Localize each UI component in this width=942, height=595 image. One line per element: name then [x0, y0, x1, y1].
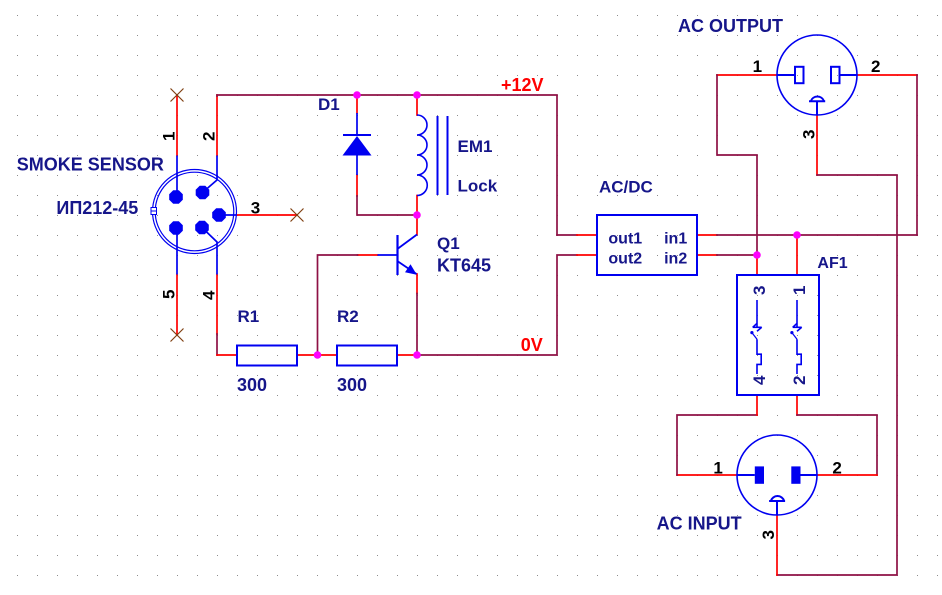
- wire R1 left red: [217, 354, 237, 356]
- wire AC OUTPUT pin1 maroon path: [717, 75, 757, 255]
- AF1 pole A: [750, 300, 761, 374]
- EM1 core line 1: [437, 116, 439, 195]
- wire base red stub: [358, 254, 378, 256]
- AC INPUT ground dome pin 3: [769, 496, 785, 501]
- svg-text:2: 2: [832, 458, 841, 477]
- wire D1 bottom red: [356, 175, 358, 196]
- sensor pad 1: [169, 190, 183, 204]
- wire AC INPUT pin3 red: [776, 515, 778, 576]
- AC OUTPUT pin 3 lead: [816, 101, 818, 115]
- AC OUTPUT connector body circle: [777, 35, 857, 115]
- sensor pin1 lead: [176, 156, 178, 198]
- wire pin4 maroon corner: [216, 334, 218, 355]
- svg-text:in2: in2: [664, 251, 687, 268]
- wire in1 maroon to right: [717, 234, 917, 236]
- AC/DC converter box: [597, 215, 697, 275]
- svg-text:1: 1: [160, 132, 179, 141]
- wire EM1 top red: [416, 95, 418, 115]
- svg-text:R2: R2: [337, 307, 359, 326]
- AC INPUT connector body circle: [737, 435, 817, 515]
- sensor pad 5: [169, 221, 183, 235]
- svg-text:4: 4: [750, 375, 769, 385]
- wire base maroon to R node: [318, 255, 358, 355]
- sensor pin5 lead: [176, 228, 178, 275]
- node EM1 +12V junction: [413, 91, 421, 99]
- resistor R1: [237, 346, 297, 366]
- wire AF1 pin2 red drop: [796, 395, 798, 415]
- wire out2 maroon down to 0V: [417, 255, 577, 355]
- wire R2 right red: [397, 354, 417, 356]
- inductor EM1 coil: [417, 115, 427, 196]
- svg-text:2: 2: [871, 57, 880, 76]
- node in1-AF1 junction: [793, 231, 801, 239]
- EM1 core line 2: [447, 116, 449, 195]
- wire AC OUTPUT pin3 red: [816, 115, 818, 175]
- sensor pin3 lead: [219, 214, 237, 216]
- wire collector red: [416, 215, 418, 235]
- wire AC OUTPUT pin1 red: [717, 74, 777, 76]
- node D1-EM1-collector junction: [413, 211, 421, 219]
- AC OUTPUT slot pin 1: [795, 67, 804, 83]
- wire out2 stub red: [577, 254, 597, 256]
- AC OUTPUT ground dome pin 3: [809, 97, 825, 102]
- wire emitter maroon to 0V node: [416, 294, 418, 356]
- svg-text:Lock: Lock: [458, 177, 498, 196]
- svg-text:AF1: AF1: [817, 255, 847, 272]
- AF1 breaker box: [737, 275, 819, 395]
- smoke sensor inner circle: [155, 172, 234, 251]
- wire AF1 pin3 red drop: [756, 255, 758, 275]
- wire AC INPUT pin2 red: [817, 474, 877, 476]
- svg-text:R1: R1: [238, 307, 260, 326]
- terminal X pin1: [171, 89, 184, 102]
- wire emitter red: [416, 274, 418, 294]
- svg-text:5: 5: [160, 290, 179, 299]
- svg-text:out1: out1: [608, 230, 642, 247]
- svg-text:300: 300: [337, 375, 367, 395]
- svg-text:3: 3: [251, 199, 260, 218]
- svg-text:0V: 0V: [521, 335, 543, 355]
- wire AF1 pin2 maroon path: [797, 415, 877, 475]
- svg-text:AC INPUT: AC INPUT: [657, 514, 742, 534]
- smoke sensor outer circle: [153, 170, 237, 254]
- node R1-R2-base junction: [314, 351, 322, 359]
- wire AC OUTPUT pin2 maroon down: [916, 75, 918, 235]
- svg-text:Q1: Q1: [437, 234, 460, 253]
- wire out1 stub maroon: [557, 234, 577, 236]
- svg-text:2: 2: [200, 132, 219, 141]
- wire AC OUTPUT pin2 red: [857, 74, 917, 76]
- wire EM1 bottom red: [416, 196, 418, 216]
- AC OUTPUT slot pin 2: [831, 67, 840, 83]
- resistor R2: [337, 346, 397, 366]
- wire in2 maroon to node: [717, 254, 757, 256]
- wire in2 red stub: [697, 254, 717, 256]
- svg-text:in1: in1: [664, 230, 687, 247]
- sensor pin2 lead: [203, 156, 218, 193]
- wire in1 red stub: [697, 234, 717, 236]
- svg-text:4: 4: [200, 290, 219, 300]
- svg-text:2: 2: [790, 376, 809, 385]
- wire AF1 pin1 red drop: [796, 235, 798, 275]
- sensor pad 4: [195, 221, 209, 235]
- svg-text:AC OUTPUT: AC OUTPUT: [678, 16, 783, 36]
- wire pin3 red horizontal: [237, 214, 298, 216]
- svg-text:SMOKE SENSOR: SMOKE SENSOR: [17, 155, 164, 175]
- svg-text:ИП212-45: ИП212-45: [56, 198, 138, 218]
- svg-text:1: 1: [713, 458, 722, 477]
- wire pin5 red vertical: [176, 275, 178, 336]
- terminal X pin5: [171, 329, 184, 342]
- svg-text:1: 1: [790, 286, 809, 295]
- sensor pad 3: [212, 208, 226, 222]
- AF1 pole B: [790, 300, 801, 374]
- wire +12V rail: [217, 95, 557, 235]
- svg-text:AC/DC: AC/DC: [599, 178, 653, 197]
- sensor pad 2: [196, 186, 210, 200]
- AC INPUT pin 3 lead: [776, 501, 778, 515]
- wire R1-R2 red: [297, 354, 337, 356]
- node in2-AF1 junction: [753, 251, 761, 259]
- svg-text:300: 300: [237, 375, 267, 395]
- svg-text:1: 1: [753, 57, 762, 76]
- wire pin2 red vertical: [216, 95, 218, 156]
- svg-text:+12V: +12V: [501, 75, 544, 95]
- svg-text:D1: D1: [318, 95, 340, 114]
- svg-text:EM1: EM1: [458, 137, 493, 156]
- wire AC OUTPUT pin3 maroon path: [777, 175, 897, 575]
- svg-text:KT645: KT645: [437, 256, 491, 276]
- smoke sensor key notch: [151, 208, 157, 215]
- svg-text:3: 3: [750, 286, 769, 295]
- sensor pin4 lead: [202, 228, 217, 275]
- transistor Q1: [378, 235, 418, 276]
- node D1 +12V junction: [353, 91, 361, 99]
- connector SMOKE SENSOR ИП212-45: [151, 156, 237, 275]
- AC INPUT blade pin 2: [791, 466, 800, 483]
- AC OUTPUT pin 2 lead: [840, 74, 858, 76]
- wire out1 stub red: [577, 234, 597, 236]
- svg-text:3: 3: [800, 130, 819, 139]
- wire AC INPUT pin1 red: [677, 474, 737, 476]
- diode D1: [343, 113, 372, 175]
- X terminal markers: [171, 89, 304, 342]
- terminal X pin3: [291, 209, 304, 222]
- AC OUTPUT pin 1 lead: [777, 74, 795, 76]
- AC INPUT pin 1 lead: [737, 474, 755, 476]
- wire D1 bottom maroon to node: [357, 196, 417, 215]
- AC INPUT blade pin 1: [755, 466, 764, 483]
- svg-text:out2: out2: [608, 251, 642, 268]
- node R2-emitter-0V junction: [413, 351, 421, 359]
- wire pin4 red vertical: [216, 275, 218, 335]
- wire D1 top red: [356, 95, 358, 113]
- wire AC INPUT pin1 maroon path: [677, 415, 757, 475]
- svg-text:3: 3: [759, 530, 778, 539]
- wire AF1 pin4 red drop: [756, 395, 758, 415]
- AC INPUT pin 2 lead: [801, 474, 818, 476]
- wire pin1 red vertical: [176, 95, 178, 156]
